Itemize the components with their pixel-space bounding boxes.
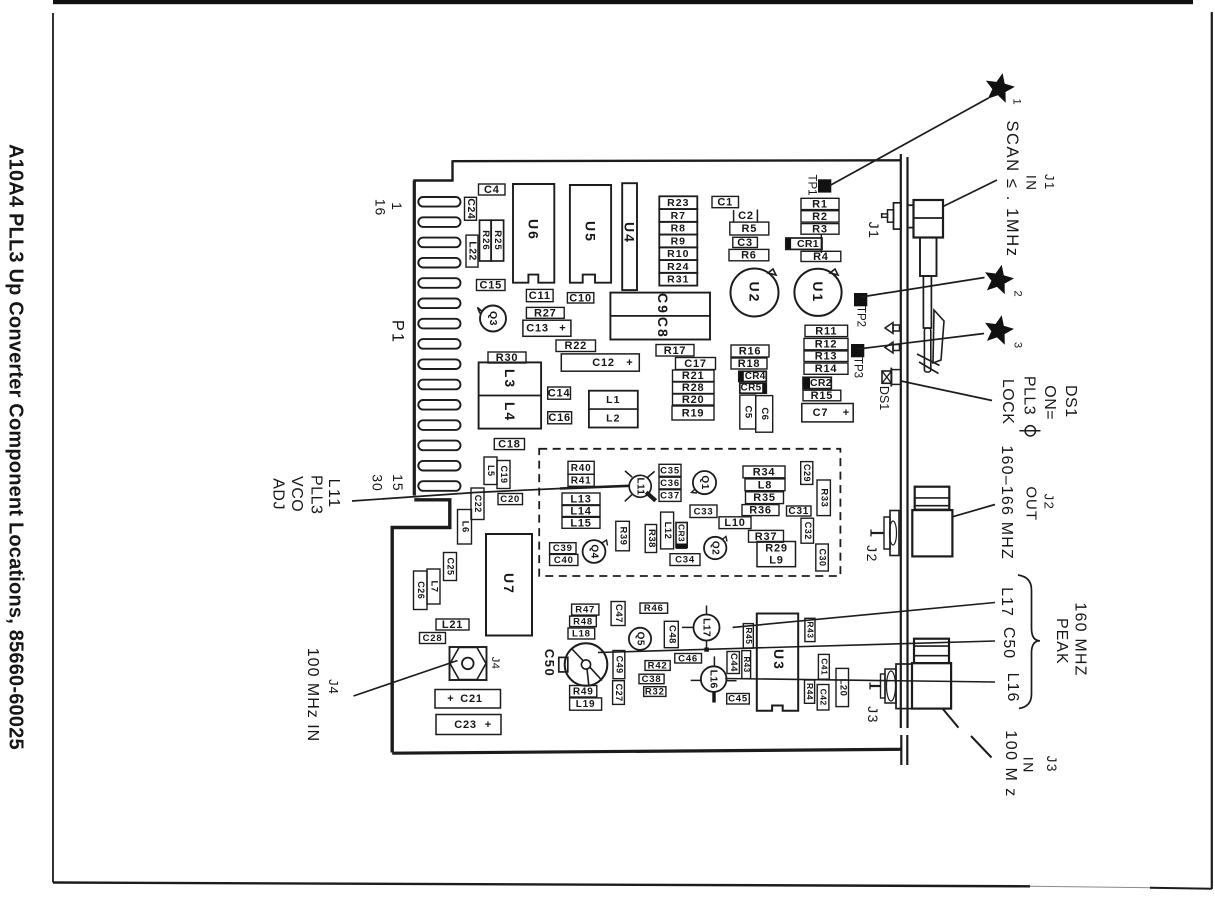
diode CR2 [803, 377, 832, 389]
capacitor C20 [498, 494, 523, 506]
svg-text:C7: C7 [813, 407, 829, 419]
resistor R13 [804, 351, 848, 363]
capacitor C46 [675, 653, 702, 664]
svg-text:160–166 MHZ: 160–166 MHZ [998, 445, 1015, 560]
svg-text:R2: R2 [812, 211, 828, 223]
callout J4 100 MHz IN [304, 648, 341, 742]
callout J3 IN 100 MHz [1002, 730, 1059, 797]
bracket arrow fastener lower [885, 342, 900, 353]
connector J4 mounting [450, 647, 487, 680]
resistor R14 [804, 363, 848, 375]
svg-text:R6: R6 [741, 250, 757, 262]
svg-text:R27: R27 [534, 307, 557, 319]
resistor R33 [817, 480, 830, 516]
svg-text:R32: R32 [645, 687, 665, 698]
svg-text:C34: C34 [675, 555, 695, 566]
resistor R43 right [805, 618, 816, 641]
connector J3 body [912, 663, 951, 709]
IC U4 [622, 183, 638, 290]
resistor R15 [803, 390, 841, 402]
svg-text:TP2: TP2 [855, 306, 867, 327]
svg-text:R38: R38 [646, 529, 657, 548]
svg-text:L21: L21 [442, 619, 463, 631]
transistor Q1 [692, 471, 717, 494]
IC U6 [513, 184, 554, 283]
svg-text:A10A4 PLL3 Up Converter Compon: A10A4 PLL3 Up Converter Component Locati… [5, 144, 27, 750]
svg-text:SCAN ≤ . 1MHz: SCAN ≤ . 1MHz [1003, 120, 1021, 257]
svg-text:J3: J3 [865, 706, 881, 724]
capacitor C19 [497, 461, 510, 489]
callout star 1 [986, 73, 1023, 105]
svg-text:U3: U3 [771, 649, 787, 671]
svg-text:C23: C23 [454, 719, 477, 731]
test point TP1 [806, 174, 832, 195]
capacitor C6 [756, 396, 773, 433]
resistor R46 [640, 603, 668, 614]
svg-text:R11: R11 [815, 325, 837, 337]
leader DS1 to callout [901, 381, 992, 401]
svg-text:ON=: ON= [1041, 385, 1058, 420]
svg-text:L9: L9 [769, 555, 783, 567]
svg-text:Q2: Q2 [710, 541, 721, 555]
leader L11 to callout [352, 486, 630, 501]
svg-text:L11: L11 [325, 479, 342, 509]
capacitor C33 [690, 505, 717, 518]
svg-text:C40: C40 [554, 555, 574, 566]
svg-text:C18: C18 [498, 439, 521, 451]
connector J2 body [912, 510, 952, 556]
resistor R12 [804, 338, 848, 350]
inductor L19 [570, 698, 602, 710]
resistor R44 [805, 680, 816, 703]
svg-text:C8: C8 [655, 317, 671, 339]
IC U7 [486, 534, 532, 636]
svg-text:C39: C39 [553, 543, 573, 554]
capacitor C48 [664, 621, 678, 647]
svg-text:L6: L6 [460, 521, 471, 533]
inductor L22 [466, 235, 479, 267]
resistor R20 [673, 394, 715, 406]
capacitor C12 [561, 354, 639, 371]
capacitor C5 [740, 395, 756, 429]
connector J2 jack nut and pin [871, 511, 899, 556]
svg-text:L1: L1 [606, 394, 620, 406]
resistor R38 [645, 525, 657, 553]
svg-text:C35: C35 [660, 465, 680, 476]
page top border line [53, 0, 1193, 4]
board outline top-left notch [413, 160, 452, 180]
svg-text:C38: C38 [642, 674, 662, 685]
svg-text:U2: U2 [747, 282, 763, 304]
svg-text:R45: R45 [744, 627, 754, 644]
svg-text:CR4: CR4 [745, 371, 766, 382]
svg-text:OUT: OUT [1022, 486, 1039, 521]
connector J2 cap [915, 487, 950, 510]
leader L16 to label [725, 679, 995, 683]
svg-text:L8: L8 [758, 479, 772, 491]
svg-text:L19: L19 [576, 699, 596, 710]
svg-text:R24: R24 [667, 261, 689, 273]
resistor R11 [805, 325, 848, 337]
svg-text:R12: R12 [815, 339, 838, 351]
IC U3 [757, 614, 798, 711]
svg-text:R42: R42 [648, 661, 668, 672]
svg-text:R19: R19 [682, 408, 705, 420]
svg-text:R4: R4 [813, 251, 829, 263]
svg-text:+: + [485, 719, 491, 731]
svg-text:L12: L12 [662, 522, 673, 540]
svg-text:C4: C4 [484, 184, 500, 196]
capacitor C38 [639, 674, 664, 685]
PLL3 VCO shield dashed outline [539, 449, 840, 576]
svg-text:C3: C3 [737, 237, 753, 249]
capacitor C34 [670, 554, 700, 566]
resistor R27 [526, 307, 564, 319]
svg-text:R5: R5 [741, 223, 757, 235]
svg-text:R43: R43 [805, 621, 815, 638]
svg-text:C42: C42 [819, 689, 829, 706]
resistor R28 [673, 382, 715, 394]
resistor R5 [730, 222, 769, 235]
capacitor C22 [471, 488, 484, 520]
resistor column R23 R7 R8 R9 R10 R24 R31 [659, 196, 697, 285]
svg-text:L10: L10 [724, 517, 745, 529]
svg-text:+: + [447, 693, 453, 705]
connector J3 cap [914, 639, 949, 663]
resistor R4 [801, 251, 841, 263]
capacitor C39 [550, 543, 576, 555]
leader TP1 to star 1 [829, 98, 989, 186]
svg-text:C13: C13 [526, 323, 549, 335]
svg-text:LOCK: LOCK [999, 379, 1016, 425]
bracket tab flag [933, 310, 944, 363]
inductor L1 / L2 block [589, 391, 638, 428]
board outline top edge [453, 159, 902, 162]
svg-text:R7: R7 [671, 210, 686, 222]
svg-text:3: 3 [1012, 342, 1024, 349]
board outline left edge along P1 [413, 181, 416, 496]
svg-text:R23: R23 [667, 197, 689, 209]
resistor R47 [572, 604, 599, 616]
capacitor C4 [479, 184, 506, 196]
capacitor C45 [727, 694, 750, 705]
svg-text:C46: C46 [678, 653, 698, 664]
svg-text:C24: C24 [465, 198, 477, 219]
svg-text:C36: C36 [660, 478, 680, 489]
resistor R2 [801, 211, 839, 223]
svg-text:CR3: CR3 [677, 524, 687, 542]
svg-text:1: 1 [389, 202, 405, 211]
front panel bracket lower section [900, 735, 902, 765]
svg-text:J3: J3 [1044, 756, 1059, 773]
bracket lower tab lines [917, 354, 940, 366]
svg-text:C45: C45 [728, 694, 748, 705]
svg-text:R16: R16 [739, 346, 762, 358]
callout 160 MHZ PEAK [1053, 602, 1088, 676]
capacitor C7 [802, 404, 853, 422]
svg-text:+: + [559, 323, 565, 335]
svg-text:TP3: TP3 [852, 357, 864, 378]
bracket arrow fastener upper [885, 323, 900, 334]
svg-text:L7: L7 [429, 580, 440, 592]
svg-text:P1: P1 [388, 320, 406, 344]
resistor R19 [672, 406, 714, 420]
callout J1 SCAN IN [1003, 120, 1057, 257]
svg-text:C47: C47 [613, 604, 624, 623]
capacitor C14 [548, 387, 571, 400]
svg-text:C22: C22 [473, 495, 483, 513]
svg-text:C31: C31 [788, 506, 809, 517]
capacitor C13 [523, 320, 571, 336]
capacitor C31 [787, 506, 812, 517]
capacitor C9 / C8 block [610, 293, 710, 340]
board outline step below P1 [392, 500, 450, 753]
svg-text:C20: C20 [500, 494, 520, 505]
capacitor C42 [817, 685, 829, 711]
svg-text:L20: L20 [837, 679, 848, 697]
svg-text:C44: C44 [728, 653, 739, 672]
svg-text:L11: L11 [635, 478, 646, 496]
svg-text:J4: J4 [489, 657, 501, 670]
svg-text:U7: U7 [501, 573, 517, 595]
test point TP3 [851, 344, 864, 378]
svg-text:Q5: Q5 [635, 632, 646, 646]
svg-text:Q3: Q3 [487, 311, 499, 326]
diode CR1 [786, 234, 822, 254]
svg-text:L18: L18 [572, 629, 591, 640]
svg-text:R13: R13 [815, 351, 838, 363]
resistor R30 [488, 352, 526, 364]
svg-text:R29: R29 [765, 543, 788, 555]
capacitor C18 [494, 439, 524, 451]
svg-text:R46: R46 [644, 603, 664, 614]
svg-text:R25: R25 [492, 230, 503, 250]
svg-text:+: + [843, 407, 849, 419]
svg-text:L13: L13 [570, 493, 591, 505]
resistor R16 [731, 345, 769, 358]
svg-text:C11: C11 [529, 290, 551, 302]
connector J1 shaft [920, 238, 937, 373]
capacitor C2 with leads [734, 210, 758, 223]
capacitor C16 [548, 412, 572, 425]
leader L17 to label [733, 603, 995, 628]
svg-text:C28: C28 [423, 633, 443, 644]
diode CR5 [740, 383, 767, 394]
svg-text:L16: L16 [1004, 673, 1021, 703]
svg-text:16: 16 [373, 199, 389, 217]
capacitor C36 [659, 477, 681, 489]
svg-text:C27: C27 [614, 684, 624, 702]
capacitor C15 [477, 280, 506, 292]
callout brace [1018, 575, 1040, 709]
inductor L21 [436, 619, 469, 631]
callout L11 PLL3 VCO ADJ [270, 475, 342, 514]
svg-text:R20: R20 [682, 394, 705, 406]
resistor R6 [729, 249, 769, 261]
capacitor C17 [676, 358, 716, 371]
inductor L5 [484, 457, 497, 485]
svg-text:C5: C5 [743, 406, 754, 419]
page left border rule [52, 13, 54, 883]
leader TP3 to star 3 [858, 334, 984, 350]
capacitor C41 [818, 654, 829, 679]
svg-text:C12: C12 [592, 357, 615, 369]
svg-text:C2: C2 [738, 210, 754, 222]
transistor Q3 [478, 306, 507, 332]
svg-text:IN: IN [1020, 757, 1036, 774]
IC U2 [731, 269, 779, 317]
svg-text:C9: C9 [655, 293, 671, 315]
page right border rule [1211, 12, 1213, 889]
adjustable inductor L16 [691, 656, 737, 702]
svg-text:L4: L4 [502, 402, 518, 422]
LED DS1 symbol [882, 368, 901, 387]
diode CR4 [739, 371, 767, 382]
resistor R29 / inductor L9 block [757, 542, 796, 567]
front panel bracket rails [900, 154, 902, 728]
capacitor C49 [613, 651, 625, 679]
resistor R18 [731, 358, 767, 370]
svg-text:R26: R26 [480, 230, 491, 250]
svg-text:L14: L14 [570, 506, 591, 518]
svg-text:R44: R44 [805, 683, 815, 700]
svg-text:160 MHZ: 160 MHZ [1071, 602, 1088, 676]
callout star 2 [985, 265, 1024, 298]
capacitor C11 [526, 289, 553, 302]
capacitor C32 [801, 518, 814, 543]
svg-text:R31: R31 [667, 274, 689, 286]
svg-text:R48: R48 [573, 616, 593, 627]
svg-text:C1: C1 [717, 197, 733, 209]
diode CR3 [676, 523, 687, 549]
svg-text:R1: R1 [812, 199, 828, 211]
svg-text:PLL3: PLL3 [1021, 376, 1038, 415]
svg-text:CR2: CR2 [810, 377, 832, 389]
svg-text:DS1: DS1 [877, 386, 891, 410]
svg-text:R41: R41 [571, 475, 592, 486]
resistor R26 [480, 220, 492, 261]
capacitor C35 [659, 464, 681, 476]
svg-text:R10: R10 [667, 248, 689, 260]
svg-text:R28: R28 [682, 382, 705, 394]
variable capacitor C50 [559, 643, 608, 686]
leader J1 to callout [943, 180, 997, 207]
svg-text:R17: R17 [664, 345, 687, 357]
svg-text:C30: C30 [818, 548, 828, 566]
svg-text:Q1: Q1 [699, 475, 710, 489]
svg-text:R14: R14 [815, 363, 838, 375]
svg-text:C41: C41 [819, 658, 829, 675]
resistor R34 [743, 466, 785, 478]
svg-text:100 MHz IN: 100 MHz IN [304, 648, 321, 742]
svg-text:1: 1 [1011, 98, 1023, 105]
svg-text:R34: R34 [753, 466, 776, 478]
svg-text:L17: L17 [701, 618, 713, 637]
resistor R39 [616, 521, 630, 551]
svg-text:C48: C48 [666, 625, 677, 644]
svg-text:J2: J2 [1042, 494, 1057, 511]
resistor R21 [673, 370, 715, 382]
callout J2 OUT 160-166 MHZ [998, 445, 1057, 560]
inductor L18 [568, 628, 595, 640]
svg-text:U5: U5 [582, 221, 598, 243]
resistor R40 [568, 461, 594, 474]
capacitor C27 [613, 681, 625, 705]
svg-text:R22: R22 [565, 340, 588, 352]
svg-text:U4: U4 [622, 222, 638, 244]
inductor L10 [719, 517, 751, 529]
resistor R45 [743, 624, 754, 649]
svg-text:ADJ: ADJ [270, 478, 287, 510]
svg-text:R9: R9 [671, 235, 686, 247]
connector J1 jack nut and pin [882, 203, 915, 229]
svg-text:C17: C17 [684, 358, 707, 370]
capacitor C25 [444, 553, 457, 581]
leader J3 to callout (dashed) [943, 709, 992, 758]
capacitor C47 [611, 602, 625, 626]
connector P1 finger slots [418, 197, 460, 491]
svg-text:L3: L3 [502, 369, 518, 389]
connector J1 body [914, 200, 944, 238]
svg-text:DS1: DS1 [1062, 385, 1079, 418]
svg-text:U6: U6 [526, 219, 542, 241]
resistor R17 [656, 345, 694, 357]
svg-text:C16: C16 [548, 412, 571, 424]
svg-text:C50: C50 [542, 649, 557, 677]
inductor L3 / L4 block [479, 362, 541, 428]
callout star 3 [985, 315, 1024, 349]
svg-text:IN: IN [1024, 175, 1039, 192]
svg-text:R43: R43 [742, 657, 751, 673]
capacitor C1 [712, 196, 739, 208]
svg-text:C10: C10 [569, 292, 592, 304]
resistor R36 [742, 505, 779, 517]
connector J3 jack nut and pin [870, 664, 912, 709]
leader J4 to callout [354, 661, 458, 697]
svg-text:R3: R3 [812, 223, 828, 235]
svg-text:C19: C19 [499, 465, 509, 483]
leader C50 to label [598, 641, 995, 653]
capacitor C3 [733, 237, 758, 249]
resistor R25 [491, 220, 503, 261]
svg-text:L16: L16 [708, 670, 720, 689]
svg-text:30: 30 [370, 474, 386, 492]
capacitor C30 [816, 544, 829, 571]
svg-text:C49: C49 [614, 656, 624, 674]
transistor Q5 [629, 628, 651, 650]
svg-text:J1: J1 [866, 222, 882, 240]
inductor L13 [562, 493, 600, 505]
inductor L15 [562, 517, 600, 529]
svg-text:J4: J4 [326, 679, 341, 695]
inductor L7 [427, 569, 440, 604]
svg-text:L22: L22 [467, 241, 479, 261]
svg-text:VCO: VCO [288, 476, 305, 512]
svg-text:L15: L15 [570, 517, 591, 529]
svg-text:R18: R18 [738, 358, 761, 370]
svg-text:15: 15 [390, 474, 406, 492]
IC U1 [794, 269, 841, 316]
inductor L20 [836, 668, 849, 706]
resistor R1 [801, 198, 839, 210]
svg-text:C50: C50 [1000, 627, 1017, 659]
svg-text:R21: R21 [682, 370, 705, 382]
capacitor C23 [436, 715, 501, 735]
svg-text:TP1: TP1 [806, 174, 818, 195]
capacitor C29 [801, 462, 813, 485]
svg-text:R33: R33 [819, 488, 830, 507]
svg-text:PLL3: PLL3 [308, 475, 325, 514]
